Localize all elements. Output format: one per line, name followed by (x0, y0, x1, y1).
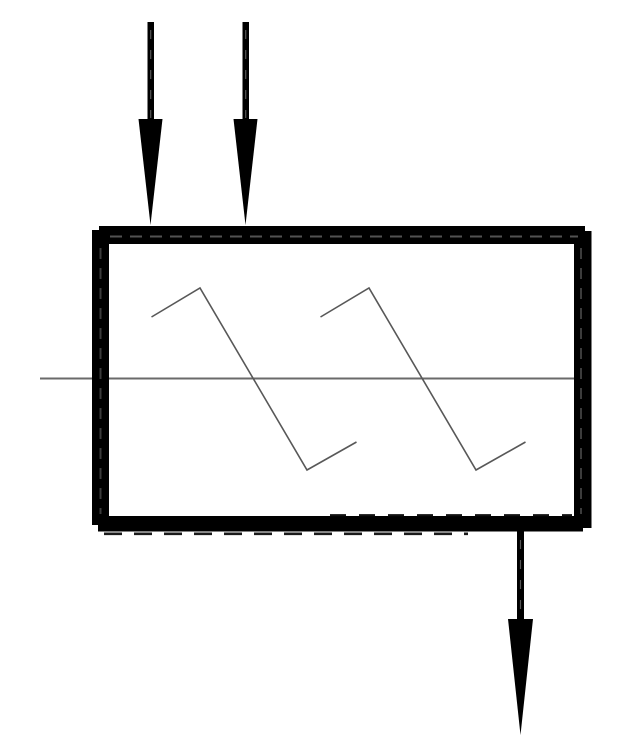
phantom dashed line: right (inside wall) (580, 248, 582, 514)
outlet arrow centerline dashes (520, 540, 522, 618)
inlet arrow 1 shaft (148, 22, 155, 120)
inlet arrow 1 centerline dashes (150, 30, 152, 118)
mixer element 1 (left zigzag) (152, 288, 357, 470)
inlet arrow 1 head (139, 119, 163, 225)
inlet arrow 2 head (234, 119, 258, 225)
wire: horizontal feed line through vessel (40, 378, 576, 380)
outlet arrow shaft (517, 531, 524, 620)
outlet arrow head (508, 619, 533, 735)
phantom dashed line: left (inside wall) (100, 248, 102, 514)
vessel top wall (99, 226, 585, 244)
vessel right wall (574, 231, 592, 528)
mixer element 2 (right zigzag) (321, 288, 526, 470)
vessel bottom wall (98, 516, 583, 532)
phantom dashed line: top (inside wall) (110, 236, 578, 238)
inlet arrow 2 shaft (243, 22, 250, 120)
inlet arrow 2 centerline dashes (245, 30, 247, 118)
phantom dashed line: bottom (below wall) (104, 532, 468, 535)
phantom dashed line: bumps above bottom wall (right portion) (330, 514, 572, 516)
vessel left wall (92, 230, 109, 525)
